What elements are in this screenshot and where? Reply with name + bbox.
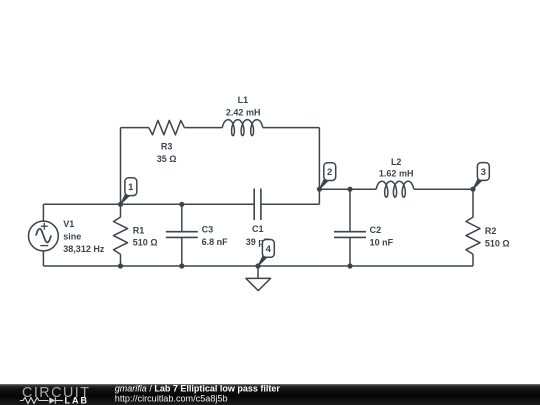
svg-text:R2: R2: [485, 226, 497, 236]
capacitor C3 top lead: [181, 204, 183, 231]
node 1 flag pointer: [121, 194, 130, 204]
svg-text:C1: C1: [252, 224, 264, 234]
capacitor C2 top lead: [349, 189, 351, 232]
junction ground node4: [255, 263, 260, 268]
CircuitLab logo resistor-diode symbol: [20, 397, 63, 403]
wire L2 to node3: [414, 188, 473, 190]
svg-text:1.62 mH: 1.62 mH: [379, 169, 414, 179]
resistor R1 top lead: [120, 204, 122, 217]
svg-text:3: 3: [481, 167, 486, 178]
wire node1 riser to top branch: [120, 128, 122, 205]
junction C3 top: [179, 202, 184, 207]
svg-text:2.42 mH: 2.42 mH: [226, 107, 261, 117]
svg-text:38,312 Hz: 38,312 Hz: [63, 244, 105, 254]
wire top branch right riser down to mid bus: [318, 128, 320, 205]
svg-text:10 nF: 10 nF: [370, 238, 394, 248]
capacitor C2: [334, 232, 366, 238]
svg-text:gmarifia / Lab 7 Elliptical lo: gmarifia / Lab 7 Elliptical low pass fil…: [115, 384, 281, 394]
wire L1 to right corner: [263, 127, 320, 129]
svg-text:L1: L1: [238, 95, 249, 105]
wire R3 to L1: [184, 127, 222, 129]
junction C2 top: [347, 187, 352, 192]
node 4 flag pointer: [258, 256, 267, 266]
junction C2 bottom: [347, 263, 352, 268]
svg-text:510 Ω: 510 Ω: [485, 239, 510, 249]
capacitor C3: [166, 232, 198, 238]
svg-text:2: 2: [327, 167, 332, 178]
svg-text:V1: V1: [63, 219, 74, 229]
junction node3: [470, 187, 475, 192]
wire V1 bottom: [42, 251, 44, 266]
capacitor C1: [254, 189, 261, 221]
node 4 flag box: [262, 240, 274, 258]
ground symbol: [246, 278, 271, 290]
node 3 flag box: [477, 163, 489, 181]
svg-text:sine: sine: [63, 232, 81, 242]
svg-text:35 Ω: 35 Ω: [157, 154, 177, 164]
svg-text:6.8 nF: 6.8 nF: [202, 237, 229, 247]
svg-text:1: 1: [128, 182, 134, 193]
voltage source V1: [29, 221, 59, 251]
junction C3 bottom: [179, 263, 184, 268]
resistor R2: [466, 217, 480, 254]
node 3 flag pointer: [473, 179, 482, 189]
junction node1: [118, 202, 123, 207]
resistor R3: [149, 120, 185, 134]
svg-text:LAB: LAB: [65, 395, 90, 405]
svg-text:4: 4: [266, 244, 272, 255]
capacitor C3 bottom lead: [181, 237, 183, 266]
wire top branch left horizontal: [121, 127, 150, 129]
wire bottom bus: [43, 265, 473, 267]
resistor R1 bottom lead: [120, 254, 122, 266]
junction R1 bottom: [118, 263, 123, 268]
node 2 flag box: [324, 163, 336, 181]
capacitor C2 bottom lead: [349, 237, 351, 266]
svg-text:C2: C2: [370, 225, 382, 235]
junction node2: [317, 187, 322, 192]
wire mid bus left segment: [43, 203, 254, 205]
wire node2 bus: [319, 188, 376, 190]
resistor R2 top lead: [472, 189, 474, 217]
svg-text:R1: R1: [133, 225, 145, 235]
ground stem: [257, 266, 259, 278]
resistor R1: [114, 217, 128, 254]
resistor R2 bottom lead: [472, 254, 474, 266]
node 1 flag box: [125, 178, 137, 196]
wire V1 top: [42, 204, 44, 221]
svg-text:C3: C3: [202, 225, 214, 235]
svg-text:510 Ω: 510 Ω: [133, 238, 158, 248]
inductor L1: [222, 120, 262, 136]
footer bar: [0, 384, 540, 405]
wire mid bus right of C1: [261, 203, 320, 205]
node 2 flag pointer: [319, 179, 328, 189]
svg-text:R3: R3: [161, 142, 173, 152]
inductor L2: [376, 181, 414, 197]
svg-text:L2: L2: [391, 157, 402, 167]
svg-text:http://circuitlab.com/c5a8j5b: http://circuitlab.com/c5a8j5b: [115, 394, 228, 404]
